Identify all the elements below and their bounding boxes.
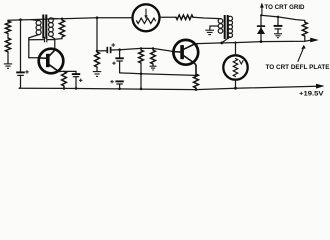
junction node B top rail	[96, 16, 99, 19]
svg-text:TO CRT DEFL PLATE: TO CRT DEFL PLATE	[266, 64, 330, 71]
resistor R5	[95, 52, 100, 67]
transistor Q1	[39, 49, 64, 74]
wire left column drop	[7, 20, 9, 21]
transformer T1 core	[43, 15, 46, 39]
capacitor C4	[107, 43, 115, 53]
junction C5 top	[277, 16, 280, 19]
wire chain bottom lead	[119, 84, 121, 89]
junction R12 rail	[234, 87, 237, 90]
wire R4 to rail	[63, 86, 65, 88]
ground	[93, 72, 101, 77]
wire feedback loop top edge left	[29, 39, 44, 41]
wire feedback loop top edge right	[48, 40, 55, 50]
ground T2 primary	[205, 26, 214, 35]
wire chain upper lead	[119, 50, 121, 58]
wire Q1 emitter net	[60, 70, 76, 72]
transistor Q1 base bar	[46, 54, 50, 67]
resistor R4	[62, 72, 67, 87]
transistor Q2 emitter line	[184, 56, 196, 74]
svg-text:+19.5V: +19.5V	[299, 90, 324, 97]
wire bottom supply rail	[19, 86, 316, 89]
potentiometer R12	[223, 43, 247, 89]
transistor Q2	[173, 40, 198, 65]
junction T2 secondary rail	[220, 42, 223, 45]
capacitor C6	[112, 58, 124, 65]
transistor Q1 emitter line	[49, 65, 60, 72]
resistor R9	[302, 22, 307, 36]
wire bypass column	[20, 20, 22, 72]
potentiometer R10	[133, 4, 160, 31]
resistor R1	[5, 21, 10, 34]
arrowhead bottom rail	[316, 84, 325, 89]
wire grid net	[261, 15, 305, 22]
wire R2 to ground	[7, 52, 9, 64]
arrowhead upper rail to defl plate	[310, 38, 319, 43]
ground	[4, 64, 12, 68]
junction R4 rail	[63, 87, 66, 90]
junction C3 rail	[75, 87, 78, 90]
resistor R3	[59, 20, 64, 37]
wire chain mid lead	[119, 61, 121, 73]
junction diode rail	[260, 40, 263, 43]
transformer T2 secondary winding	[222, 16, 233, 42]
node A junction top rail	[19, 18, 22, 21]
wire C1 to bottom rail	[19, 75, 20, 88]
junction mid net crossing	[140, 72, 143, 75]
capacitor C1	[16, 70, 29, 75]
wire collector rail upper	[198, 40, 311, 43]
transistor Q2 collector line	[184, 44, 198, 50]
capacitor C3	[72, 71, 83, 88]
wire diode column	[260, 15, 262, 41]
wire node C to C4	[97, 50, 107, 52]
resistor R7	[151, 50, 156, 64]
resistor R11 horizontal	[176, 15, 193, 20]
junction R6 rail	[140, 88, 143, 91]
wire node B drop	[96, 18, 98, 51]
junction R7 top	[152, 47, 154, 49]
junction R12 top lead	[234, 41, 236, 43]
transformer T1 right winding	[49, 18, 58, 39]
transistor Q1 base lead	[39, 57, 46, 59]
junction node C	[96, 50, 99, 53]
junction chain rail	[118, 88, 121, 91]
diode D1	[257, 26, 265, 34]
junction R3 top	[61, 18, 63, 20]
resistor R2	[5, 38, 10, 52]
junction R6 top	[140, 47, 142, 49]
svg-text:TO CRT GRID: TO CRT GRID	[265, 4, 305, 11]
capacitor C2	[45, 37, 47, 42]
transistor Q2 base bar	[180, 45, 184, 59]
wire R3 bottom stub	[61, 37, 63, 39]
transistor Q2 base lead	[174, 51, 181, 53]
junction grid wire corner	[260, 14, 262, 16]
wire mid horizontal net	[120, 73, 196, 76]
wire top rail right section to T2	[193, 17, 217, 18]
wire top rail mid section	[159, 16, 176, 18]
arrow to CRT grid	[260, 3, 264, 15]
ground C5	[274, 34, 282, 38]
wire R7 stub	[152, 64, 154, 66]
wire node X to R3 bottom	[55, 38, 62, 41]
junction R8 rail	[195, 88, 198, 91]
junction cap chain top	[118, 48, 121, 51]
wire R8 to rail	[195, 88, 197, 90]
resistor R6	[139, 50, 144, 63]
transformer T2 primary winding	[210, 19, 223, 34]
wire R9 bottom stub	[304, 36, 306, 41]
wire R5 to ground	[96, 67, 98, 71]
junction Q2 emitter node	[195, 74, 197, 76]
wire base line Q2	[112, 48, 174, 51]
wire top rail left section	[8, 18, 133, 21]
wire between R1 and R2	[7, 34, 9, 39]
transformer T2 core	[225, 15, 228, 39]
capacitor C5	[274, 17, 283, 33]
capacitor C7	[110, 80, 124, 84]
annotation arrow defl plate	[298, 45, 306, 62]
wire feedback loop left side	[29, 38, 39, 58]
transformer T1 left winding	[29, 20, 41, 38]
wire R6 bottom to rail	[140, 63, 142, 89]
resistor R8	[194, 74, 199, 88]
transistor Q1 collector line	[49, 50, 55, 56]
ground	[150, 66, 157, 70]
